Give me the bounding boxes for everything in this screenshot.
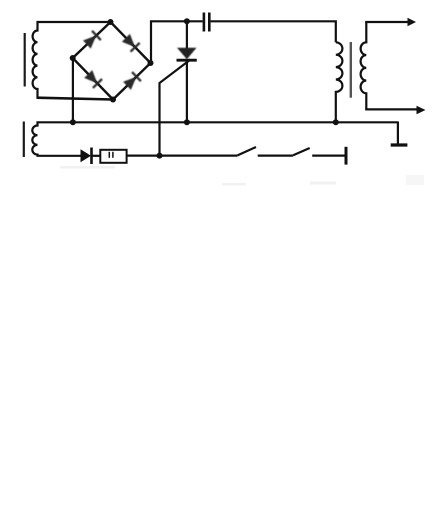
wire bridge left node down to common rail — [72, 58, 74, 122]
resistor R1 tick marks II — [108, 152, 110, 158]
terminal end bar — [345, 147, 348, 165]
transformer T1 upper winding — [33, 21, 38, 98]
diode D3 (bridge left-to-bottom) — [84, 70, 97, 83]
diode D1 (bridge left-to-top) — [83, 35, 96, 48]
transformer T1 core bar (upper) — [24, 33, 26, 87]
wire T2 secondary bottom output — [365, 108, 417, 110]
transformer T2 primary winding — [336, 42, 343, 121]
thyristor VS1 anode wire — [186, 21, 188, 48]
wire resistor to switch S1 — [127, 155, 238, 157]
thyristor VS1 cathode bar — [177, 59, 197, 62]
switch S2 blade — [293, 148, 310, 155]
thyristor VS1 triangle — [177, 48, 197, 59]
thyristor VS1 gate wire — [160, 60, 191, 156]
transformer T2 secondary winding — [361, 22, 367, 109]
switch S1 blade — [238, 147, 257, 155]
wire bridge side left-bottom — [73, 58, 113, 100]
thyristor VS1 cathode wire to rail — [186, 60, 188, 122]
diode VD1 cathode bar — [90, 148, 93, 165]
capacitor C1 plate right — [208, 13, 211, 32]
wire bridge side bottom-right — [113, 63, 151, 100]
transformer T1 lower winding — [32, 122, 37, 157]
transformer T2 core bar — [350, 42, 352, 98]
wire rail to ground — [397, 122, 399, 144]
wire T1 lower winding to diode VD1 — [37, 155, 82, 157]
wire top rail left (T1 primary top to bridge top node) — [37, 21, 111, 23]
arrow output top — [408, 18, 417, 26]
wire common rail — [37, 121, 398, 123]
arrow output bottom — [417, 106, 426, 115]
capacitor C1 plate left — [203, 13, 206, 32]
junction dots — [108, 19, 114, 25]
diode D4 (bridge bottom-to-right) — [123, 77, 136, 90]
diode D2 (bridge top-to-right) — [122, 34, 135, 47]
transformer T1 core bar (lower) — [23, 122, 25, 158]
wire bridge side top-right — [111, 22, 151, 63]
wire bridge right node up and right to capacitor — [151, 21, 203, 63]
wire diode to resistor R1 — [92, 155, 101, 157]
ground bar — [391, 143, 408, 146]
wire bridge side left-top — [73, 22, 111, 58]
wire T1 upper winding bottom to bridge bottom node — [37, 98, 114, 100]
diode VD1 triangle — [81, 149, 92, 162]
wire capacitor to transformer T2 primary top — [211, 21, 336, 42]
wire T2 secondary top output — [365, 21, 408, 23]
resistor R1 body — [100, 150, 126, 163]
wire switch S2 to end terminal — [312, 155, 345, 157]
wire switch S1 to switch S2 — [258, 155, 293, 157]
